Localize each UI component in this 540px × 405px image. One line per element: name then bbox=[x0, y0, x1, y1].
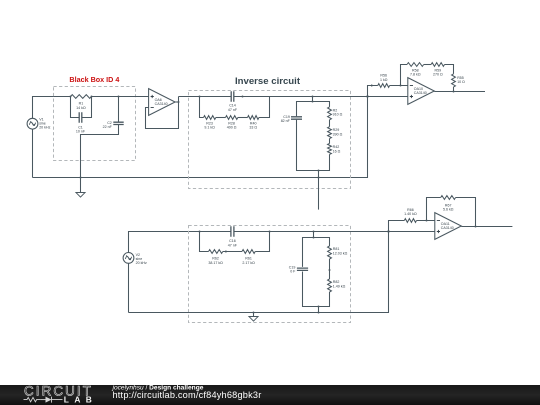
svg-text:33 Ω: 33 Ω bbox=[249, 126, 257, 130]
wire: OA6 feedback loop bbox=[146, 97, 179, 129]
resistor R2 (tank right top) bbox=[328, 107, 332, 120]
wire: R59 to R55 corner bbox=[445, 65, 454, 74]
resistor R40 bbox=[248, 116, 259, 120]
wire: OA11 output bbox=[461, 226, 512, 228]
node: feedback tap (bottom) bbox=[426, 220, 428, 222]
svg-text:CA3140: CA3140 bbox=[155, 102, 168, 106]
wire: rail to C16 bbox=[200, 231, 231, 233]
wire: R23-R28 link bbox=[216, 117, 226, 119]
wire: R62-R61 link bbox=[223, 251, 242, 253]
svg-text:12.03 kΩ: 12.03 kΩ bbox=[333, 251, 348, 255]
wire: V2 bottom lead bbox=[128, 263, 130, 312]
inverse circuit dashed boundary bbox=[189, 91, 351, 189]
node: C2 tap bbox=[118, 96, 120, 98]
resistor R59 bbox=[431, 63, 444, 67]
svg-text:10 Ω: 10 Ω bbox=[457, 80, 465, 84]
voltage source V2 bbox=[123, 253, 134, 264]
wire: tank2 bottom stub bbox=[318, 307, 320, 313]
svg-text:270 Ω: 270 Ω bbox=[433, 73, 443, 77]
wire: R56 to OA10 - input bbox=[390, 85, 408, 87]
svg-text:OA10: OA10 bbox=[414, 87, 423, 91]
CircuitLab logo: resistor-diode squiggle bbox=[24, 397, 41, 401]
node: junction of signal, rail and R56 branch bbox=[366, 95, 368, 97]
capacitor C16 (series) bbox=[231, 226, 234, 236]
svg-text:38.17 kΩ: 38.17 kΩ bbox=[208, 261, 223, 265]
resistor R28 bbox=[226, 116, 238, 120]
svg-text:OA11: OA11 bbox=[441, 222, 450, 226]
svg-text:16 Ω: 16 Ω bbox=[333, 149, 341, 153]
wire: dangling stub below rail bbox=[318, 178, 320, 210]
svg-text:400 Ω: 400 Ω bbox=[227, 126, 237, 130]
wire: OA10 output bbox=[434, 91, 485, 93]
resistor R58 bbox=[407, 63, 424, 67]
wire: tank top stub bbox=[312, 97, 314, 102]
wire: R81-R82 link bbox=[329, 259, 331, 279]
capacitor C1 (series in branch) bbox=[79, 112, 82, 122]
wire: tank bottom stub to rail bbox=[318, 171, 320, 178]
resistor R66 bbox=[404, 219, 416, 223]
op-amp OA11 CA3140 bbox=[435, 213, 462, 240]
bottom dashed boundary box bbox=[189, 226, 351, 323]
wire: V1 top lead to input rail bbox=[33, 97, 71, 119]
svg-text:Black Box ID 4: Black Box ID 4 bbox=[69, 75, 119, 84]
svg-text:Inverse circuit: Inverse circuit bbox=[235, 76, 301, 87]
wire: R66 to OA11 - input bbox=[417, 220, 435, 222]
wire: R58-R59 link bbox=[424, 64, 431, 66]
resistor R29 (tank right middle) bbox=[328, 127, 332, 139]
svg-text:http://circuitlab.com/cf84yh68: http://circuitlab.com/cf84yh68gbk3r bbox=[113, 390, 262, 400]
svg-text:CA3140: CA3140 bbox=[414, 91, 427, 95]
voltage source V1 bbox=[27, 118, 38, 129]
wire: R-chain right rise bbox=[259, 97, 270, 118]
svg-text:14 kΩ: 14 kΩ bbox=[76, 106, 86, 110]
resistor R81 (tank2 right top) bbox=[328, 246, 332, 259]
wire: OA6 output to C14 bbox=[179, 96, 232, 98]
svg-text:1 kΩ: 1 kΩ bbox=[380, 78, 388, 82]
wire: R29-R42 link bbox=[329, 139, 331, 144]
wire: bypass right rise bbox=[255, 232, 269, 252]
wire: R55 to output bbox=[453, 87, 455, 92]
wire: feedback drop to output bbox=[456, 198, 476, 227]
svg-text:20 kHz: 20 kHz bbox=[136, 261, 147, 265]
svg-text:OA6: OA6 bbox=[155, 98, 162, 102]
svg-text:82 nF: 82 nF bbox=[281, 119, 291, 123]
node: OA11 + junction bbox=[387, 230, 389, 232]
resistor R1 bbox=[71, 95, 92, 99]
wire: C2 bottom lead to ground drop bbox=[81, 125, 119, 193]
wire: R1 parallel branch left drop bbox=[71, 97, 80, 118]
wire: V1 bottom lead to ground rail bbox=[32, 129, 34, 177]
wire: junction to OA11 + input bbox=[389, 231, 435, 233]
node: ground rail junction bbox=[80, 177, 82, 179]
wire: OA6 output stub bbox=[175, 101, 178, 103]
wire: tank2 top stub bbox=[313, 232, 315, 238]
capacitor C14 (series) bbox=[231, 91, 234, 101]
wire: ground stub (bottom) bbox=[253, 313, 255, 317]
wire: bypass left drop bbox=[200, 232, 209, 252]
svg-text:1.49 kΩ: 1.49 kΩ bbox=[333, 284, 346, 288]
wire: bottom rail of bottom circuit rising to R66 bbox=[129, 221, 405, 313]
svg-text:0 F: 0 F bbox=[290, 270, 296, 274]
wire: C2 top lead bbox=[118, 97, 120, 123]
svg-text:47 nF: 47 nF bbox=[228, 108, 238, 112]
footer black bar bbox=[0, 385, 540, 405]
svg-text:LAB: LAB bbox=[64, 394, 97, 404]
wire: C16 to OA11 junction bbox=[234, 231, 389, 233]
wire: branch up to R56 bbox=[368, 86, 378, 97]
wire: feedback rise (bottom) bbox=[427, 198, 441, 221]
ground symbol (top circuit) bbox=[76, 193, 85, 198]
wire: R28-R40 link bbox=[238, 117, 248, 119]
wire: V2 top lead bbox=[129, 232, 200, 253]
tank loop (bottom circuit): outline bbox=[303, 238, 330, 267]
svg-text:390 Ω: 390 Ω bbox=[333, 132, 343, 136]
wire: feedback rise bbox=[401, 65, 408, 86]
svg-text:910 Ω: 910 Ω bbox=[333, 113, 343, 117]
svg-text:1.40 kΩ: 1.40 kΩ bbox=[404, 212, 417, 216]
svg-text:CA3140: CA3140 bbox=[441, 226, 454, 230]
resistor R67 bbox=[441, 196, 456, 200]
resistor R82 (tank2 right bottom) bbox=[328, 279, 332, 292]
wire: R1 parallel branch right drop bbox=[82, 97, 92, 118]
resistor R55 (vertical) bbox=[452, 74, 456, 87]
node: feedback tap bbox=[400, 85, 402, 87]
svg-text:5.6 kΩ: 5.6 kΩ bbox=[443, 208, 454, 212]
op-amp OA6 CA3140 bbox=[149, 89, 176, 116]
resistor R61 bbox=[242, 250, 255, 254]
capacitor C2 bbox=[113, 122, 123, 124]
svg-text:22 nF: 22 nF bbox=[103, 125, 113, 129]
wire: node to OA6 + input bbox=[92, 96, 149, 98]
capacitor C19 0 F (tank2 left edge) bbox=[297, 268, 308, 270]
wire: R2-R29 link bbox=[329, 120, 331, 127]
op-amp OA10 CA3140 bbox=[408, 78, 435, 105]
resistor R56 bbox=[378, 84, 390, 88]
ground symbol (bottom circuit) bbox=[249, 317, 258, 322]
black box dashed boundary bbox=[54, 87, 136, 161]
node: ground rail junction (bottom) bbox=[253, 312, 255, 314]
capacitor C19 82 nF (tank left edge) bbox=[291, 117, 302, 119]
svg-text:7.8 kΩ: 7.8 kΩ bbox=[410, 73, 421, 77]
wire: R-chain bypass left drop bbox=[200, 97, 204, 118]
svg-text:9.1 kΩ: 9.1 kΩ bbox=[204, 126, 215, 130]
tank loop (top circuit): outline bbox=[297, 102, 330, 117]
svg-text:2.17 kΩ: 2.17 kΩ bbox=[242, 261, 255, 265]
wire: C14 to junction node bbox=[234, 96, 368, 98]
resistor R62 bbox=[209, 250, 223, 254]
wire: bottom ground rail of top circuit bbox=[33, 97, 368, 178]
resistor R23 bbox=[204, 116, 216, 120]
svg-text:47 nF: 47 nF bbox=[228, 243, 238, 247]
resistor R42 (tank right bottom) bbox=[328, 144, 332, 155]
wire: junction to OA10 + input bbox=[368, 96, 408, 98]
svg-text:20 kHz: 20 kHz bbox=[39, 126, 50, 130]
svg-text:10 nF: 10 nF bbox=[76, 130, 86, 134]
